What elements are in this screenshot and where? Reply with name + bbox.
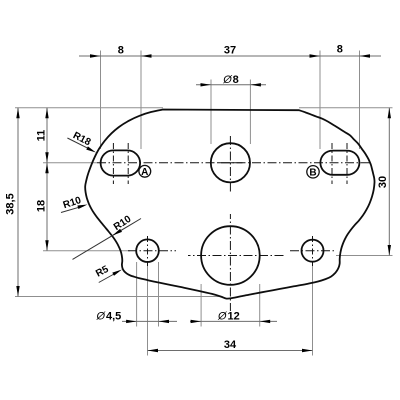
dimension line: phi4.5 at y=321.4 <box>122 320 177 322</box>
centerline: top hole vertical x=230.4 <box>229 136 231 194</box>
svg-text:Ø 12: Ø 12 <box>217 310 240 322</box>
extension line: top reference y=108 left <box>15 107 163 109</box>
extension line: bottom reference y=296.5 <box>15 296 222 298</box>
extension line: phi8 hole left x=211 <box>210 80 212 145</box>
dimension line: 38.5 vertical at x=18 <box>17 108 19 297</box>
svg-text:B: B <box>309 168 316 179</box>
dimension line: 11 and 18 vertical at x=47 <box>46 108 48 251</box>
leader R18 <box>67 138 92 150</box>
dimension line: phi8 at y=84.8 <box>196 84 266 86</box>
hole phi4.5 right <box>302 240 324 262</box>
leader R10 second <box>73 219 142 260</box>
dimension line: phi12 at y=321.4 <box>190 320 277 322</box>
centerline: horizontal through right small hole y=250.7 <box>290 250 336 252</box>
extension line: top dim, left slot right edge x=141 <box>140 51 142 150</box>
extension line: big-hole centerline right y=255.5 <box>336 255 393 257</box>
svg-text:Ø 4,5: Ø 4,5 <box>96 310 122 322</box>
extension line: phi4.5 right x=158.5 <box>158 262 160 327</box>
svg-text:11: 11 <box>36 130 48 142</box>
svg-text:30: 30 <box>377 176 389 188</box>
extension line: small-hole centerline left y=250.7 <box>43 250 130 252</box>
extension line: top dim, left slot left edge x=100.5 <box>100 51 102 150</box>
hole phi8 top center <box>211 143 250 182</box>
centerline: top hole horizontal short <box>219 162 243 164</box>
extension line: top dim, right slot right edge x=359.5 <box>359 51 361 150</box>
svg-text:Ø 8: Ø 8 <box>222 74 239 86</box>
centerline: left slot arc center 1 x=113.4 <box>112 143 114 184</box>
svg-text:18: 18 <box>36 200 48 212</box>
svg-text:8: 8 <box>337 44 343 56</box>
centerline: left slot arc center 2 x=128.2 <box>127 143 129 184</box>
extension line: phi8 hole right x=250.4 <box>249 80 251 145</box>
svg-text:38,5: 38,5 <box>5 193 17 214</box>
dimension line: top chain 8 / 37 / 8 at y=56 <box>79 55 381 57</box>
centerline: right slot arc center 2 x=347 <box>346 143 348 184</box>
centerline: horizontal through left small hole y=250.7 <box>128 250 176 252</box>
centerline: big hole horizontal y=255.5 <box>188 255 284 257</box>
extension line: phi12 left x=201.1 <box>200 284 202 327</box>
slot right <box>320 151 359 175</box>
hole phi4.5 left <box>136 239 159 262</box>
centerline: right small hole vertical x=312.5 <box>312 236 314 266</box>
extension line: top dim, right slot left edge x=320 <box>319 51 321 150</box>
svg-text:37: 37 <box>224 45 236 57</box>
datum A <box>139 165 151 177</box>
svg-text:A: A <box>141 167 148 178</box>
leader R10 first <box>61 206 84 213</box>
svg-text:8: 8 <box>118 45 124 57</box>
centerline: horizontal through slots and top hole y=162.8 <box>97 162 372 164</box>
extension line: 34 dim right x=312.5 <box>312 263 314 356</box>
extension line: slot centerline left y=162.8 <box>43 162 97 164</box>
extension line: phi12 right x=259.7 <box>259 284 261 327</box>
svg-text:34: 34 <box>224 339 237 351</box>
datum B <box>307 166 319 178</box>
extension line: phi4.5 left x=136.6 <box>136 262 138 327</box>
dimension line: 30 vertical at x=389.3 <box>388 108 390 256</box>
centerline: big hole vertical x=230.4 <box>229 214 231 311</box>
dimension line: 34 at y=350.5 <box>148 350 313 352</box>
extension line: top reference y=108 right <box>299 107 393 109</box>
leader R5 <box>99 272 119 283</box>
part outline <box>85 110 374 299</box>
hole phi12 bottom center <box>201 226 260 285</box>
extension line: 34 dim left x=147.5 <box>147 264 149 356</box>
slot left <box>101 150 141 175</box>
centerline: right slot arc center 1 x=332 <box>331 143 333 184</box>
centerline: left small hole vertical x=147.5 <box>147 236 149 266</box>
